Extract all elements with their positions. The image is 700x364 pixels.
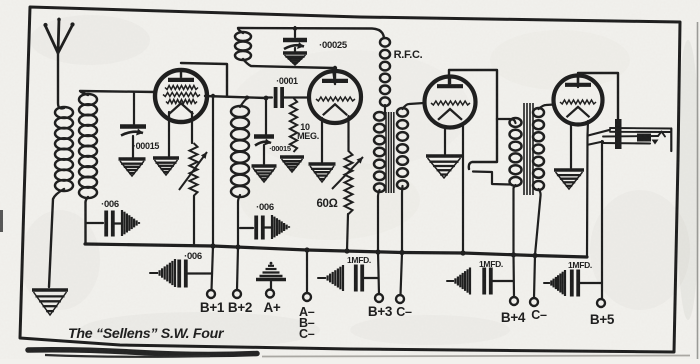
wire R1 to bus bbox=[193, 196, 195, 246]
terminal A+ bbox=[266, 290, 274, 298]
ground (C1) bbox=[119, 157, 146, 160]
wire V2 filament legs bbox=[321, 118, 323, 162]
tube V2 bbox=[309, 71, 361, 123]
tube V3 bbox=[425, 77, 476, 128]
phone plug tip bar bbox=[615, 119, 622, 149]
terminal C- (2) bbox=[530, 298, 538, 306]
ground (V3) bbox=[426, 154, 462, 157]
terminal A- B- C- bbox=[303, 293, 311, 301]
paper bottom edge bbox=[262, 356, 690, 357]
antenna bbox=[45, 19, 73, 53]
RF choke RFC bbox=[380, 38, 390, 47]
wire antenna lead bbox=[58, 53, 64, 108]
phones jack body bbox=[610, 127, 671, 130]
capacitor C7 .006 bypass bbox=[240, 227, 253, 229]
wire T1 primary bottom to B+3 bbox=[378, 190, 380, 294]
wire L3 bottom to B+2 bbox=[237, 195, 240, 290]
wire V3 filament to bus bbox=[462, 124, 464, 253]
capacitor C3 .00025 bbox=[283, 38, 307, 43]
marker A+ battery pyramid bbox=[256, 278, 286, 282]
coil L1 antenna primary bbox=[55, 107, 73, 118]
scan mark left edge bbox=[0, 210, 3, 232]
wire jack lower blade to T2 bbox=[473, 172, 511, 185]
wire V4 plate to phones bbox=[578, 73, 618, 120]
wire junction to C2 bbox=[265, 98, 267, 135]
wire T2 secondary top to V4 grid bbox=[539, 105, 555, 110]
coil L2 secondary bbox=[79, 94, 97, 105]
wire V3 plate to jack bbox=[449, 70, 497, 119]
rheostat R1 bbox=[190, 143, 198, 196]
terminal B+3 bbox=[375, 294, 383, 302]
terminal B+4 bbox=[510, 297, 518, 305]
wire T2 primary top bbox=[497, 119, 516, 123]
scan streak artifact bottom-left bbox=[28, 350, 257, 355]
wire grid line H2 bbox=[205, 96, 266, 98]
wire RFC to T1 bbox=[384, 105, 386, 114]
capacitor C8 1MFD bbox=[318, 277, 325, 279]
capacitor C10 1MFD bbox=[544, 282, 549, 284]
wire L1 to ground bbox=[49, 189, 64, 287]
capacitor C9 1MFD bbox=[447, 280, 453, 282]
terminal B+2 bbox=[233, 290, 241, 298]
wire A-B-C- drop bbox=[306, 250, 308, 293]
filament bus bbox=[85, 244, 587, 257]
tube V1 detector bbox=[155, 70, 207, 122]
wire C3 to ground bbox=[294, 48, 296, 53]
wire V3 cathode bbox=[444, 126, 446, 154]
wire C1 to ground bbox=[132, 136, 134, 158]
wire L3 top hook bbox=[240, 98, 248, 107]
ground (V1) bbox=[153, 156, 179, 159]
wire T2 primary bottom to B+4 bbox=[514, 185, 516, 297]
paper smudges bbox=[30, 15, 150, 65]
capacitor C6 .006 bypass bbox=[150, 272, 157, 274]
wire branch to C4 bbox=[86, 222, 103, 224]
scan line right edge bbox=[697, 22, 699, 359]
ground (C2) bbox=[252, 164, 277, 167]
rheostat R3 60 ohm bbox=[345, 151, 353, 214]
coil L3 bbox=[231, 106, 249, 117]
wire C2 to ground bbox=[263, 145, 265, 164]
capacitor C1 .00015 tuning bbox=[120, 124, 146, 129]
ground (R2) bbox=[280, 155, 304, 158]
wire tap to C1 bbox=[133, 92, 135, 125]
ground (V2) bbox=[309, 162, 336, 165]
resistor R2 10 MEG grid leak bbox=[290, 98, 297, 152]
ground (C3) bbox=[283, 51, 307, 54]
wire B+1 drop bbox=[212, 96, 214, 290]
wire tickler loop bottom bbox=[243, 59, 335, 84]
wire T1 secondary bottom to C- bbox=[401, 186, 403, 295]
wire V4 filament / bus riser bbox=[587, 121, 588, 257]
wire T1 secondary top to V3 grid bbox=[403, 103, 425, 109]
capacitor C4 .006 bbox=[104, 211, 108, 237]
wire phones leads bbox=[588, 130, 610, 136]
tube V4 bbox=[554, 76, 603, 125]
ground earth (antenna) bbox=[32, 288, 68, 292]
terminal C- (1) bbox=[396, 295, 404, 303]
wire L2 bottom bbox=[85, 197, 88, 244]
terminal B+5 bbox=[597, 299, 605, 307]
coil L4 tickler bbox=[235, 32, 251, 41]
wire T2 secondary bottom to C- bbox=[534, 189, 541, 298]
wire V1 plate loop bbox=[181, 63, 227, 96]
wire L2 top to grid V1 bbox=[80, 91, 156, 95]
wire B+5 drop bbox=[601, 141, 603, 299]
transformer T2 bbox=[510, 118, 522, 127]
terminal B+1 bbox=[207, 290, 215, 298]
capacitor C2 .00015 tuning bbox=[254, 134, 274, 139]
capacitor C5 .0001 grid bbox=[266, 96, 272, 98]
wire .00025 tap bbox=[294, 27, 296, 37]
wire R3 to bus bbox=[347, 214, 348, 251]
ground (V4) bbox=[554, 168, 584, 171]
wire V1 filament legs bbox=[168, 112, 170, 156]
wire V4 cathode bbox=[570, 123, 572, 168]
wire jack upper blade bbox=[469, 119, 497, 169]
bus junctions bbox=[210, 243, 215, 248]
transformer T1 bbox=[374, 112, 385, 121]
wire tickler loop top bbox=[238, 28, 384, 38]
